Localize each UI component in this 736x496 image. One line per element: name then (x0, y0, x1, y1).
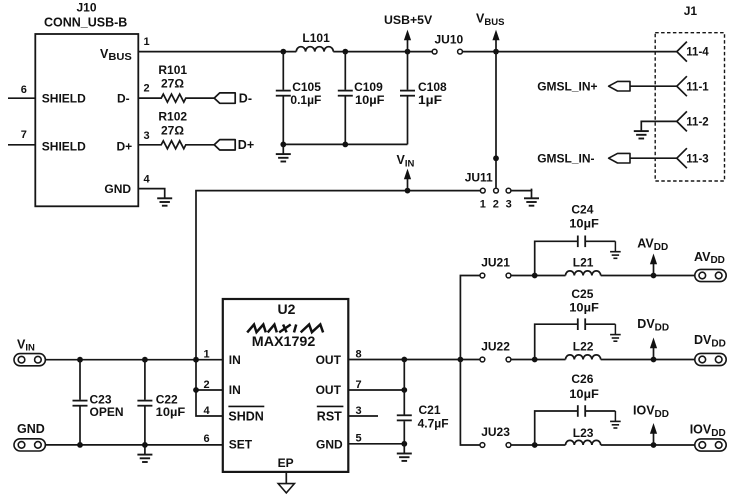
node junction C26 branch (532, 442, 538, 448)
ground at J10 pin 4 (157, 189, 172, 206)
jumper JU23 (480, 443, 485, 448)
svg-text:3: 3 (144, 130, 150, 142)
svg-text:GND: GND (104, 182, 131, 196)
node junction VIN flag (405, 188, 411, 194)
svg-text:C26: C26 (571, 372, 593, 386)
svg-text:VIN: VIN (17, 337, 35, 353)
node junction C22 top (142, 357, 148, 363)
inductor L23 (566, 440, 601, 445)
node junction C21 top (401, 357, 407, 363)
node junction pin 7 (401, 387, 407, 393)
node junction JU column (458, 357, 464, 363)
svg-text:1µF: 1µF (418, 93, 442, 107)
J10 pin 6 stub wire (8, 97, 35, 99)
wire JU column vertical (460, 276, 480, 446)
power flag IOVDD (650, 423, 657, 445)
net flag D+ (214, 140, 235, 150)
svg-text:JU11: JU11 (465, 171, 493, 185)
svg-text:MAX1792: MAX1792 (252, 333, 316, 349)
svg-text:L22: L22 (573, 339, 594, 353)
capacitor C26 branch wire (535, 411, 616, 445)
svg-text:IOVDD: IOVDD (690, 423, 726, 439)
ground at C24 (610, 241, 621, 258)
svg-text:C108: C108 (418, 80, 447, 94)
J1 pin 11-3 chevron (677, 148, 687, 168)
node junction pin 5 (401, 441, 407, 447)
svg-text:D+: D+ (238, 138, 254, 152)
ground at JU11 pin 3 (524, 189, 539, 206)
svg-text:4: 4 (204, 405, 211, 417)
svg-text:SET: SET (229, 438, 253, 452)
svg-text:GMSL_IN-: GMSL_IN- (537, 151, 594, 165)
svg-text:C24: C24 (571, 203, 593, 217)
svg-text:7: 7 (356, 379, 362, 391)
svg-text:SHDN: SHDN (228, 409, 263, 423)
svg-text:10µF: 10µF (156, 405, 186, 419)
ground at C25 (610, 324, 621, 341)
jumper JU22 (480, 357, 485, 362)
svg-text:IN: IN (229, 353, 241, 367)
DVDD terminal (695, 353, 726, 365)
jumper JU10 (432, 49, 437, 54)
svg-text:GND: GND (316, 438, 343, 452)
power flag USB+5V (404, 30, 411, 52)
svg-text:SHIELD: SHIELD (42, 91, 86, 105)
power flag VIN (404, 169, 411, 191)
node junction pin2 (193, 387, 199, 393)
svg-text:C25: C25 (571, 287, 593, 301)
ground at J1 pin 11-2 (634, 121, 649, 138)
svg-text:IOVDD: IOVDD (633, 404, 669, 420)
svg-text:J10: J10 (77, 0, 97, 14)
svg-text:JU23: JU23 (481, 425, 510, 439)
svg-text:5: 5 (356, 433, 362, 445)
wire 11-2 to ground (641, 120, 677, 123)
op-amp U2 regulator box (223, 299, 348, 472)
svg-text:VIN: VIN (397, 153, 415, 169)
IOVDD terminal (695, 439, 726, 451)
svg-text:AVDD: AVDD (694, 250, 725, 266)
wire U2 pin 7 OUT (348, 389, 404, 391)
svg-text:6: 6 (21, 84, 27, 96)
svg-text:C105: C105 (292, 80, 321, 94)
wire VBUS rail right segment to J1 (462, 51, 676, 53)
wire pin 2 stub (196, 389, 223, 391)
wire VIN terminal to U2 pin 1 (45, 359, 222, 361)
capacitor C23 (79, 360, 81, 400)
J1 pin 11-1 chevron (677, 76, 687, 96)
svg-text:6: 6 (204, 433, 210, 445)
svg-text:1: 1 (480, 198, 486, 210)
svg-text:L23: L23 (573, 426, 594, 440)
capacitor C108 (407, 52, 409, 90)
svg-text:1: 1 (204, 349, 210, 361)
resistor R101 (138, 94, 214, 102)
capacitor C26 (577, 405, 579, 417)
U2 EP pad triangle (285, 472, 287, 484)
svg-text:2: 2 (144, 83, 150, 95)
svg-text:4: 4 (144, 174, 151, 186)
capacitor C24 branch wire (535, 241, 616, 275)
node junction C23 top (77, 357, 83, 363)
svg-text:10µF: 10µF (569, 301, 599, 315)
svg-text:GMSL_IN+: GMSL_IN+ (537, 79, 597, 93)
capacitor C109 (344, 52, 346, 90)
svg-text:D-: D- (117, 91, 130, 105)
connector J1 dashed box (655, 33, 724, 181)
svg-text:D+: D+ (117, 139, 133, 153)
node junction bottom rail C109 (342, 142, 348, 148)
svg-text:DVDD: DVDD (694, 333, 726, 349)
node junction VBUS (493, 49, 499, 55)
resistor R102 (138, 141, 214, 149)
power flag DVDD (650, 338, 657, 360)
svg-text:U2: U2 (278, 301, 296, 317)
wire JU21 to L21 (511, 275, 566, 277)
net flag GMSL_IN+ (609, 81, 630, 91)
node junction C25 branch (532, 357, 538, 363)
wire VIN rail (196, 191, 480, 416)
net flag GMSL_IN- (609, 153, 630, 163)
svg-text:EP: EP (278, 456, 294, 470)
wire JU23 to L23 (511, 444, 566, 446)
svg-text:2: 2 (493, 198, 499, 210)
connector J10 (35, 34, 138, 206)
svg-text:3: 3 (506, 198, 512, 210)
svg-text:OUT: OUT (316, 383, 342, 397)
svg-text:10µF: 10µF (355, 93, 385, 107)
svg-text:2: 2 (204, 379, 210, 391)
wire U2 pin 5 GND (348, 443, 404, 445)
svg-text:L101: L101 (302, 31, 330, 45)
svg-text:AVDD: AVDD (637, 237, 668, 253)
RST overline (317, 405, 344, 407)
power flag VBUS (492, 30, 499, 52)
wire cap bottom rail (283, 143, 407, 145)
wire JU11 pin3 to ground (511, 190, 532, 192)
J10 pin 7 stub wire (8, 144, 35, 146)
svg-text:10µF: 10µF (569, 216, 599, 230)
wire U2 pin 3 RST stub (348, 415, 378, 417)
VIN terminal (14, 354, 45, 366)
capacitor C25 branch wire (535, 324, 616, 359)
svg-text:RST: RST (317, 409, 342, 423)
J1 pin 11-2 chevron (677, 111, 687, 131)
svg-text:11-3: 11-3 (686, 153, 708, 165)
svg-text:J1: J1 (684, 4, 698, 18)
svg-text:R101: R101 (158, 63, 187, 77)
svg-text:4.7µF: 4.7µF (418, 417, 449, 431)
power flag AVDD (650, 254, 657, 276)
capacitor C105 (282, 52, 284, 90)
svg-text:27Ω: 27Ω (161, 77, 184, 91)
node junction USB+5V (405, 49, 411, 55)
wire VBUS rail left segment (138, 51, 296, 53)
ground at C26 (610, 411, 621, 428)
wire GMSL_IN- to 11-3 (630, 157, 677, 159)
svg-text:R102: R102 (158, 109, 187, 123)
wire L22 to DVDD terminal (601, 359, 695, 361)
svg-text:0.1µF: 0.1µF (290, 93, 321, 107)
J1 pin 11-4 chevron (677, 42, 687, 62)
svg-text:11-4: 11-4 (686, 47, 709, 59)
capacitor C25 (577, 318, 579, 330)
svg-text:7: 7 (21, 129, 27, 141)
ground below C22 (137, 445, 152, 462)
inductor L21 (566, 271, 601, 276)
svg-text:JU10: JU10 (435, 33, 464, 47)
MAXIM logo (247, 325, 323, 333)
net flag D- (214, 93, 235, 103)
node junction IOVDD flag (651, 442, 657, 448)
inductor L101 (296, 47, 333, 52)
capacitor C22 (144, 360, 146, 400)
svg-text:L21: L21 (573, 255, 594, 269)
wire VBUS rail mid segment (333, 51, 432, 53)
node junction C24 branch (532, 273, 538, 279)
node junction C22 bottom (142, 442, 148, 448)
svg-text:3: 3 (356, 405, 362, 417)
wire JU22 to L22 (511, 359, 566, 361)
svg-text:VBUS: VBUS (476, 12, 504, 28)
svg-text:CONN_USB-B: CONN_USB-B (44, 15, 127, 29)
svg-text:C21: C21 (419, 403, 441, 417)
svg-text:11-1: 11-1 (686, 81, 709, 93)
wire GMSL_IN+ to 11-1 (630, 85, 677, 87)
wire GND terminal to U2 pin 6 (45, 444, 222, 446)
wire VBUS vertical to JU11 (495, 52, 497, 188)
svg-text:10µF: 10µF (569, 387, 599, 401)
svg-text:C109: C109 (354, 80, 383, 94)
svg-text:GND: GND (17, 422, 45, 436)
node junction pin1 (193, 357, 199, 363)
capacitor C24 (577, 236, 579, 248)
svg-text:OPEN: OPEN (90, 405, 124, 419)
node junction C23 bottom (77, 442, 83, 448)
SHDN overline (228, 405, 264, 407)
svg-text:11-2: 11-2 (686, 117, 708, 129)
node junction DVDD flag (651, 357, 657, 363)
svg-text:OUT: OUT (316, 353, 342, 367)
node junction right of L101 (342, 49, 348, 55)
svg-text:JU21: JU21 (481, 255, 510, 269)
svg-text:1: 1 (144, 36, 150, 48)
inductor L22 (566, 355, 601, 360)
svg-text:SHIELD: SHIELD (42, 139, 86, 153)
wire L21 to AVDD terminal (601, 275, 695, 277)
ground below C21 (397, 444, 412, 461)
wire L23 to IOVDD terminal (601, 444, 695, 446)
node junction AVDD flag (651, 273, 657, 279)
svg-text:USB+5V: USB+5V (384, 13, 433, 27)
jumper JU21 (480, 273, 485, 278)
J10 GND pin wire (138, 188, 164, 190)
ground at cap bottom rail (276, 144, 291, 161)
svg-text:JU22: JU22 (481, 339, 510, 353)
GND terminal (14, 439, 45, 451)
svg-text:27Ω: 27Ω (161, 123, 184, 137)
node junction bottom rail C105 (280, 142, 286, 148)
node junction on VBUS vertical (493, 155, 499, 161)
AVDD terminal (695, 269, 726, 281)
svg-text:D-: D- (239, 92, 252, 106)
capacitor C21 (403, 360, 405, 415)
svg-text:DVDD: DVDD (637, 317, 669, 333)
wire U2 pin 8 OUT to JU22 (348, 359, 480, 361)
svg-text:VBUS: VBUS (100, 47, 132, 63)
node junction left of L101 (280, 49, 286, 55)
svg-text:IN: IN (229, 383, 241, 397)
jumper JU11 (480, 188, 485, 193)
